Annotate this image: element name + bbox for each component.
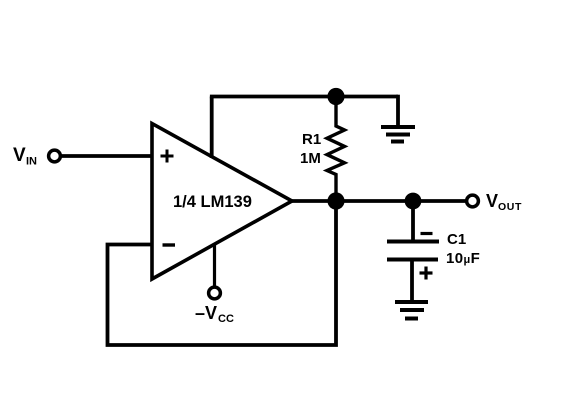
terminal -VCC — [209, 287, 221, 299]
ground (below C1) — [395, 302, 428, 319]
label R1 1M — [300, 131, 321, 167]
svg-text:10μF: 10μF — [446, 250, 480, 267]
svg-text:IN: IN — [26, 156, 37, 168]
svg-text:C1: C1 — [447, 231, 466, 248]
svg-text:V: V — [486, 191, 498, 211]
wire output — [290, 199, 466, 203]
label VOUT — [486, 191, 522, 213]
wire C1 down to ground — [410, 260, 414, 303]
wire VIN to noninverting input — [62, 154, 153, 158]
node output junction (R1/feedback) — [327, 192, 344, 209]
svg-text:1M: 1M — [300, 150, 321, 167]
svg-text:CC: CC — [218, 313, 234, 325]
svg-text:OUT: OUT — [498, 201, 522, 213]
wire -VCC stub from bottom edge of U1 — [213, 243, 216, 287]
resistor R1 1M — [327, 97, 345, 202]
wire top rail down to ground — [396, 95, 400, 127]
wire feedback loop output to inverting input — [108, 201, 337, 345]
pin + (noninverting) — [161, 150, 174, 163]
polarity plus mark — [420, 267, 433, 280]
svg-text:1/4 LM139: 1/4 LM139 — [173, 193, 252, 211]
pin - (inverting) — [163, 243, 176, 246]
junction dot output / C1 — [405, 193, 422, 210]
svg-text:V: V — [13, 145, 26, 166]
ground (top right) — [381, 127, 415, 142]
terminal VIN — [49, 150, 61, 162]
junction dot top rail / R1 — [327, 88, 344, 105]
wire from top edge of U1 up to top rail — [210, 97, 214, 159]
wire top rail — [210, 95, 398, 99]
svg-text:R1: R1 — [302, 131, 321, 148]
label VIN — [13, 145, 37, 168]
label C1 10uF — [446, 231, 480, 267]
wire output down to C1 — [411, 201, 415, 240]
svg-text:–V: –V — [195, 303, 217, 323]
label -VCC — [195, 303, 234, 325]
terminal VOUT — [467, 195, 479, 207]
op-amp U1 1/4 LM139 — [152, 124, 292, 280]
polarity minus mark — [421, 232, 433, 235]
capacitor C1 10uF (polarized) — [387, 242, 439, 260]
